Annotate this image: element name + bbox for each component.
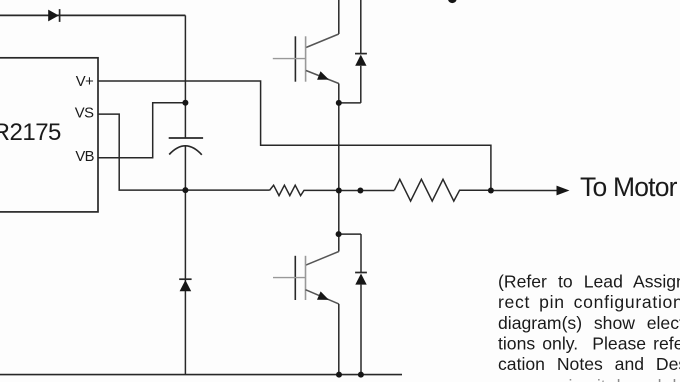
svg-text:(Refer to Lead Assignments for: (Refer to Lead Assignments for cor- — [498, 272, 680, 292]
svg-text:IR2175: IR2175 — [0, 119, 61, 146]
svg-text:V+: V+ — [76, 74, 93, 90]
svg-text:rect pin configuration). This/: rect pin configuration). This/These — [498, 292, 680, 312]
svg-text:cation Notes and DesignTips fo: cation Notes and DesignTips for — [498, 354, 680, 374]
svg-text:proper circuit board layout.: proper circuit board layout. — [498, 376, 680, 382]
svg-text:VB: VB — [75, 149, 94, 165]
svg-text:diagram(s) show electrical con: diagram(s) show electrical connec- — [498, 313, 680, 333]
svg-text:To Motor: To Motor — [580, 172, 678, 202]
svg-text:VS: VS — [75, 106, 94, 122]
svg-text:tions only. Please refer to o: tions only. Please refer to our Appli- — [498, 333, 680, 353]
